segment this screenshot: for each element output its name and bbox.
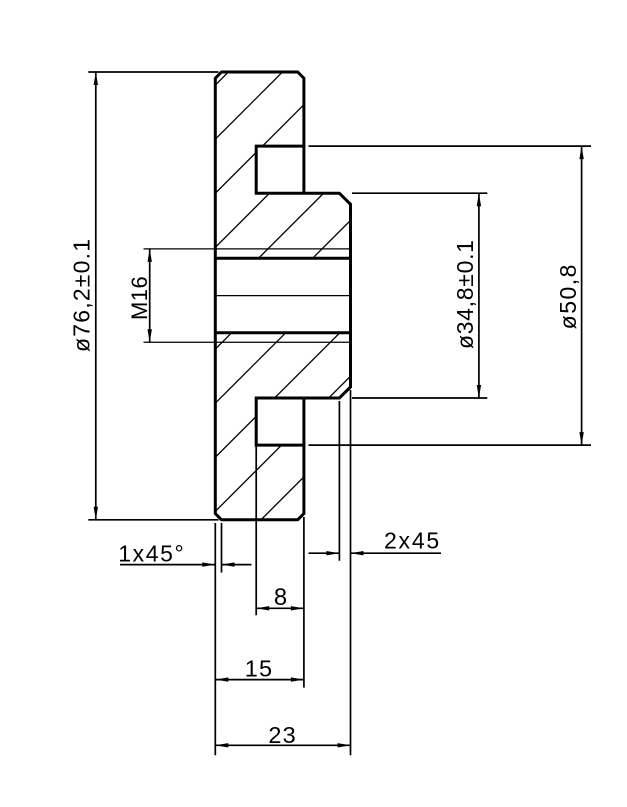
svg-text:ø76,2±0.1: ø76,2±0.1 xyxy=(68,238,94,352)
thread major-diameter lines (also M16 extension lines) xyxy=(144,248,351,250)
dimension diameter 34,8 xyxy=(352,193,487,398)
dimension 15 xyxy=(215,679,304,681)
dimension diameter 76,2 xyxy=(88,72,218,520)
tapped bore minor-diameter lines xyxy=(215,257,350,260)
svg-text:8: 8 xyxy=(274,584,287,611)
dimension M16 xyxy=(149,249,151,342)
part outline (section profile) xyxy=(215,72,350,520)
svg-text:23: 23 xyxy=(268,722,297,748)
disc face edge across upper groove mouth xyxy=(302,146,305,193)
svg-text:15: 15 xyxy=(245,655,274,681)
svg-text:ø34,8±0.1: ø34,8±0.1 xyxy=(452,239,478,349)
svg-text:ø50,8: ø50,8 xyxy=(555,263,581,329)
svg-text:2x45: 2x45 xyxy=(384,528,441,554)
dimension diameter 50,8 xyxy=(309,146,592,445)
svg-text:M16: M16 xyxy=(127,276,152,320)
dimension 2x45 chamfer xyxy=(309,390,442,755)
hatch top half of section xyxy=(0,0,571,571)
dimension 23 xyxy=(215,744,350,746)
dimension 8 xyxy=(256,446,304,688)
dimension 1x45 chamfer xyxy=(120,523,252,755)
svg-text:1x45°: 1x45° xyxy=(118,541,185,567)
center line of bore xyxy=(215,295,350,297)
disc face edge across lower groove mouth xyxy=(302,398,305,445)
